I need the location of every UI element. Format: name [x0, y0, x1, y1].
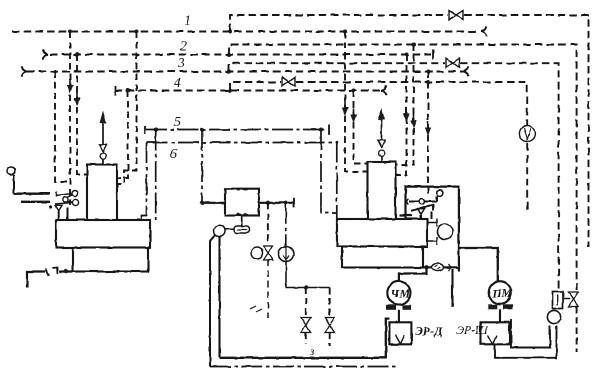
- cartridge device: [553, 292, 564, 309]
- drain valve 2: [325, 318, 335, 333]
- wire dashed drop to valve with gauge: [267, 203, 269, 244]
- wire left drop from line3: [55, 72, 68, 183]
- left burner pipes: [14, 194, 50, 202]
- arrow up from right vessel: [381, 118, 383, 140]
- wire ER-Sh outer U pipe: [495, 326, 557, 358]
- arrow up from left vessel: [102, 121, 104, 145]
- servo motor PM: [489, 281, 512, 304]
- wire regulator output right: [259, 202, 294, 204]
- left burner pipe riser and hook: [13, 175, 15, 194]
- wire line 3 header: [27, 71, 463, 73]
- PM mount: [488, 304, 498, 309]
- shutoff valve vertical right: [569, 292, 579, 307]
- regulator block center: [225, 189, 259, 216]
- arrow down x345: [344, 101, 346, 108]
- wire top loop to right edge and down: [464, 15, 589, 247]
- node outlet dot: [424, 265, 428, 269]
- node line2 dots: [75, 53, 409, 57]
- wire cartridge to valve: [563, 298, 570, 300]
- svg-text:5: 5: [174, 115, 181, 130]
- right boiler lower tier: [342, 247, 423, 268]
- fitting line2 right end tick: [432, 50, 434, 60]
- left boiler vessel: [87, 165, 117, 223]
- wire drop from branch2 into right vessel right wall: [396, 45, 414, 166]
- regulator box ER-D: [389, 322, 411, 344]
- fitting line2 left end: [43, 49, 48, 59]
- arrow down x428: [427, 121, 429, 128]
- valve marks on left blowoff: [46, 268, 58, 277]
- wire from flow meter down and right: [286, 262, 330, 288]
- fitting line1 right end: [481, 26, 486, 36]
- svg-text:6: 6: [170, 147, 177, 162]
- wire dash-dot drop through flow meter: [285, 203, 287, 246]
- node line5 dots: [154, 128, 323, 132]
- wire drain drop 2: [329, 288, 331, 317]
- fitting line3 left end: [22, 66, 27, 76]
- right burner stubs into base: [421, 212, 432, 220]
- arrow down x406.5: [406, 107, 408, 114]
- wire line5 tap into regulator: [202, 202, 225, 204]
- safety valve on right vessel: [381, 157, 383, 163]
- svg-text:ПМ: ПМ: [491, 286, 512, 300]
- regulator bottom gap ticks: [236, 214, 248, 216]
- servo motor CHM: [387, 281, 410, 304]
- right boiler vessel: [368, 162, 396, 219]
- regulator box ER-Sh: [481, 322, 510, 344]
- svg-text:ЭР-Д: ЭР-Д: [415, 324, 443, 338]
- left burner stubs into base: [59, 208, 68, 221]
- wire left drop from line1 to burners: [69, 32, 71, 206]
- right boiler base: [337, 219, 427, 247]
- node at drain tee: [304, 285, 308, 289]
- break marks: [250, 306, 262, 312]
- svg-text:3: 3: [177, 56, 185, 71]
- regulator bottom stem: [241, 216, 243, 227]
- wire center inner drop: [218, 236, 220, 358]
- wire line 1 header: [12, 31, 479, 33]
- fitting line5 right tick: [328, 125, 330, 136]
- CHM stem: [398, 310, 400, 323]
- wire branch of line 3: [229, 63, 445, 71]
- valve V3 on branch 3: [446, 58, 459, 67]
- wire bottom impulse run dash-dot: [210, 366, 399, 368]
- regulator top gap ticks: [236, 189, 248, 191]
- wire boiler outlet to riser: [423, 266, 459, 268]
- node regulator left dot: [200, 201, 204, 205]
- wire right drop from line1 into right vessel: [345, 32, 367, 172]
- valve V4 on branch 4: [282, 77, 295, 86]
- wire below gauge valve: [267, 260, 269, 318]
- wire left drop from line2 into vessel: [77, 55, 87, 175]
- wire branch 4 to right and down: [296, 82, 527, 211]
- wire line6 right drop: [337, 142, 342, 247]
- PM stem: [499, 309, 501, 322]
- gauge circle right of base: [427, 218, 437, 227]
- wire branch of line 4: [230, 82, 281, 91]
- fitting line4 right end: [381, 85, 386, 95]
- left igniter nozzles: [49, 191, 79, 211]
- wire CHM riser: [399, 267, 427, 281]
- valve V1 on top loop: [449, 11, 463, 20]
- stand foot: [400, 216, 413, 220]
- node blowoff dot: [64, 269, 68, 273]
- svg-text:1: 1: [184, 14, 191, 29]
- wire branch of line 1 (top loop): [230, 15, 448, 32]
- left boiler lower tier: [73, 248, 148, 272]
- wire line5 center drop to regulator: [201, 130, 203, 203]
- fitting right end tick: [293, 198, 295, 208]
- instrument circle on branch4 drop: [519, 126, 535, 142]
- fitting mark on outlet line: [449, 264, 452, 271]
- svg-text:ЧМ: ЧМ: [391, 287, 411, 301]
- node line1 junction dots: [68, 30, 347, 34]
- right burner stand frame: [406, 187, 459, 272]
- wire line6 left drop: [155, 130, 157, 221]
- svg-text:з: з: [309, 346, 314, 358]
- left blowoff pipe bottom: [28, 272, 74, 288]
- wire drop from line3 to right burners: [427, 72, 429, 195]
- wire bottom solid run to ER-D: [220, 319, 390, 358]
- wire line 5 impulse: [146, 129, 327, 131]
- wire drain drop 1: [305, 288, 307, 317]
- arrow down x353.5: [353, 108, 355, 115]
- svg-text:2: 2: [180, 39, 187, 54]
- drain valve 1: [301, 318, 311, 333]
- wire branch2 below valve: [576, 307, 578, 353]
- sensor pill: [234, 226, 250, 233]
- node line3 dots: [53, 70, 430, 74]
- CHM mount: [387, 305, 397, 310]
- valve with gauge circle: [251, 247, 263, 259]
- right igniter nozzles: [407, 190, 443, 215]
- arrow down on drop x77: [76, 92, 78, 99]
- wire drop from line4 into vessel right: [117, 91, 128, 179]
- wire line 4 header: [115, 90, 381, 92]
- wire right drop from line4 into right vessel: [354, 91, 368, 164]
- left boiler base: [56, 220, 150, 248]
- wire line 2 header: [50, 54, 431, 56]
- arrow down on drop x70: [69, 78, 71, 86]
- wire line5 right drop: [321, 130, 337, 214]
- wire branch of line 2: [229, 45, 577, 291]
- pump circle left of pill: [214, 225, 225, 236]
- wire drain stub below outlet: [451, 269, 453, 307]
- wire center left long drop (outer): [210, 235, 216, 367]
- pressure gauge circle right: [547, 310, 560, 323]
- fitting line3 right end: [463, 66, 468, 76]
- fitting line4 left end tick: [114, 86, 116, 96]
- wire ER-Sh inner U pipe: [511, 319, 550, 348]
- inline fitting oval: [432, 264, 444, 272]
- wire PM supply branch: [459, 248, 498, 281]
- wire line 6 impulse: [147, 142, 337, 144]
- node branch2 dot: [412, 43, 416, 47]
- wire branch 3 to right and down to cartridge: [460, 63, 559, 290]
- wire line5 left drop: [142, 143, 147, 221]
- svg-text:ЭР-Ш: ЭР-Ш: [456, 323, 489, 337]
- node output dots: [266, 201, 270, 205]
- flow meter circle: [279, 247, 294, 262]
- wire drop from line2 into right vessel right wall: [396, 55, 407, 176]
- arrow down x413.5: [413, 114, 415, 121]
- safety valve symbol on left vessel: [102, 159, 104, 165]
- node branch4 dot: [426, 80, 430, 84]
- wire drop from line1 into vessel right: [117, 32, 137, 185]
- svg-text:4: 4: [174, 76, 181, 91]
- node line4 dots: [126, 89, 356, 93]
